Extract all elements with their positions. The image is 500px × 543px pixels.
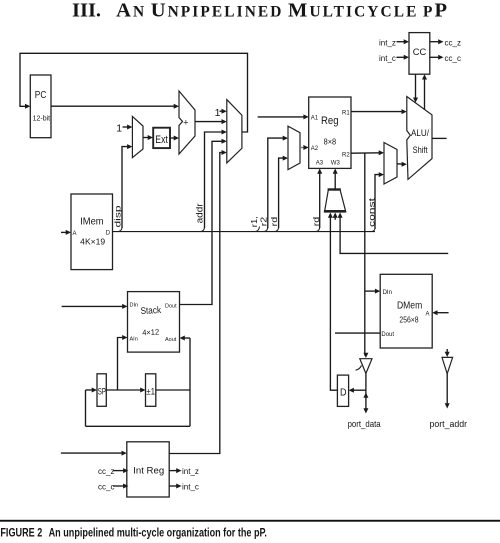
arrowhead into ALU from mux M4 <box>402 162 407 167</box>
wire result bus stub into mux M5 <box>340 216 448 253</box>
arrowhead into CC int_z <box>404 39 409 44</box>
svg-text:cc_c: cc_c <box>98 482 114 491</box>
wire Ext out to adder <box>170 137 176 139</box>
arrowhead into CC from ALU <box>422 74 427 79</box>
arrowhead into mux M4 input 1 <box>379 150 384 155</box>
arrowhead into mux M2 input 5 <box>222 150 227 155</box>
svg-text:Dout: Dout <box>165 303 177 309</box>
arrowhead into adder (PC) <box>174 104 179 109</box>
register file Reg <box>309 97 351 168</box>
arrowhead into mux M3 input 1 <box>283 136 288 141</box>
svg-text:1: 1 <box>215 107 221 119</box>
wire into Reg A1 <box>258 116 306 118</box>
wire mux M4 out to ALU <box>397 163 404 165</box>
wire r1 curve at bus <box>255 227 260 232</box>
svg-text:4×12: 4×12 <box>142 328 160 338</box>
wire constant 1 into mux M1 <box>123 126 130 128</box>
wire disp from bus up into mux M1 <box>122 147 130 228</box>
mux M1 (Ext input mux) <box>132 116 143 157</box>
svg-text:R2: R2 <box>342 153 350 159</box>
arrowhead into tri-state from R2 <box>363 353 368 358</box>
tri-state buffer (port_addr) <box>442 357 453 373</box>
svg-text:r2: r2 <box>259 216 269 226</box>
wire rd from bus up into mux M3 <box>279 158 285 228</box>
mux M5 (Reg W3 mux) <box>325 190 346 212</box>
svg-text:CC: CC <box>413 47 427 58</box>
svg-text:AIn: AIn <box>130 336 138 342</box>
svg-text:D: D <box>340 388 347 399</box>
svg-text:Reg: Reg <box>321 115 339 127</box>
wire into SP <box>86 389 95 391</box>
arrowhead into mux M2 input 1 <box>222 109 227 114</box>
mux M3 (Reg A2 mux) <box>288 126 300 170</box>
arrowhead port_addr down <box>445 403 450 408</box>
wire const from bus up into mux M4 <box>375 175 381 229</box>
svg-text:Shift: Shift <box>413 145 428 155</box>
svg-text:cc_z: cc_z <box>445 38 461 47</box>
arrowhead into mux M1 input 1 <box>127 125 132 130</box>
wire int_z into CC <box>397 41 407 43</box>
wire D register up into mux M5 <box>330 216 337 390</box>
arrowhead port_data up <box>363 393 368 398</box>
wire CC out cc_c <box>430 56 440 58</box>
svg-text:r1,: r1, <box>249 216 259 227</box>
wire Stack Dout up into mux M2 <box>180 141 222 304</box>
arrowhead into ALU from R1 <box>402 109 407 114</box>
arrowhead into D register <box>349 388 354 393</box>
wire CC out cc_z <box>430 41 440 43</box>
adder <box>179 91 195 154</box>
wire ALU out stub <box>432 137 447 139</box>
mux M5 thick top edge <box>328 188 341 190</box>
wire SP loop bottom <box>86 425 191 427</box>
memory DMem <box>380 274 432 348</box>
svg-text:Ext: Ext <box>155 134 168 146</box>
svg-text:int_z: int_z <box>379 38 396 47</box>
wire rd curve at bus <box>315 227 320 232</box>
arrowhead into port_addr buffer <box>445 352 450 357</box>
arrowhead into Stack DIn <box>122 304 127 309</box>
svg-text:Dout: Dout <box>381 332 394 338</box>
arrowhead into mux M5 input 3 <box>338 213 343 218</box>
mux M5 thick bottom edge <box>324 210 346 213</box>
arrowhead into mux M2 input 4 <box>222 139 227 144</box>
wire port_addr buffer down <box>446 374 448 406</box>
interrupt register Int Reg <box>127 442 169 497</box>
svg-text:addr: addr <box>195 203 206 223</box>
wire CC down into ALU <box>415 74 417 99</box>
arrowhead port_data down <box>363 408 368 413</box>
svg-text:const: const <box>367 197 377 227</box>
svg-text:port_data: port_data <box>348 419 382 430</box>
wire disp curve at bus <box>118 227 123 232</box>
wire stub into DMem A <box>435 312 448 314</box>
wire port_data bidirectional stem <box>365 390 367 410</box>
register PC <box>30 75 51 138</box>
mux M2 (PC source mux) <box>227 100 242 163</box>
arrowhead into mux M5 input 2 <box>333 213 338 218</box>
arrowhead into Int Reg top <box>122 451 127 456</box>
wire R2 tap to DMem DIn <box>365 290 377 292</box>
wire ±1 out to loop <box>156 389 190 391</box>
mux M4 (ALU const mux) <box>384 143 397 185</box>
register SP <box>97 374 106 407</box>
svg-text:int_z: int_z <box>182 467 199 476</box>
arrowhead into SP <box>92 388 97 393</box>
arrowhead cc_z out <box>438 39 443 44</box>
wire const curve at bus <box>371 228 376 232</box>
wire SP to ±1 <box>106 389 142 391</box>
wire R2 down to tri-state <box>364 153 366 355</box>
incrementer ±1 <box>146 374 156 407</box>
arrowhead into mux M2 input 3 <box>222 130 227 135</box>
svg-text:A: A <box>426 312 430 318</box>
wire adder out to mux M2 <box>195 121 222 123</box>
wire stub DMem bottom into port_addr buffer <box>446 349 448 354</box>
condition-code block CC <box>409 33 430 75</box>
wire cc_c into Int Reg <box>113 485 125 487</box>
wire stub into Int Reg top <box>61 452 124 454</box>
svg-text:DMem: DMem <box>397 301 422 312</box>
svg-text:IMem: IMem <box>80 217 103 228</box>
wire SP loop left up <box>85 390 87 426</box>
arrowhead into ±1 <box>140 388 145 393</box>
ALU/Shift unit <box>407 97 432 180</box>
svg-text:1: 1 <box>116 123 122 135</box>
svg-text:rd: rd <box>311 216 321 226</box>
arrowhead into ALU from CC <box>413 98 418 103</box>
wire SP tap up into Stack AIn <box>118 338 125 391</box>
wire cc_z into Int Reg <box>113 470 125 472</box>
arrowhead into Reg A2 <box>303 145 308 150</box>
svg-text:4K×19: 4K×19 <box>80 237 105 247</box>
svg-text:A3: A3 <box>316 161 324 167</box>
arrowhead into Stack AIn <box>122 335 127 340</box>
wire addr from bus up into mux M2 <box>205 132 222 228</box>
arrowhead int_c out <box>176 484 181 489</box>
svg-text:cc_z: cc_z <box>98 467 114 476</box>
svg-text:±1: ±1 <box>146 387 155 397</box>
svg-text:Aout: Aout <box>165 337 177 343</box>
wire mux M5 out to Reg W3 <box>334 173 336 190</box>
svg-text:III.ANUNPIPELINEDMULTICYCLEPP: III.ANUNPIPELINEDMULTICYCLEPP <box>72 0 449 22</box>
arrowhead into Reg A1 <box>303 114 308 119</box>
svg-text:rd: rd <box>269 216 279 226</box>
wire constant 1 into mux M2 <box>220 110 222 112</box>
arrowhead into Int Reg cc_c <box>123 484 128 489</box>
arrowhead into mux M4 input 2 <box>379 172 384 177</box>
svg-text:A: A <box>73 231 77 237</box>
arrowhead into DMem DIn <box>375 289 380 294</box>
svg-text:12-bit: 12-bit <box>33 114 51 123</box>
wire Int Reg vector up into mux M2 <box>169 153 221 454</box>
svg-text:port_addr: port_addr <box>430 419 468 430</box>
sign extender Ext <box>153 128 170 148</box>
wire ALU up into CC <box>424 77 426 109</box>
svg-text:DIn: DIn <box>130 302 139 308</box>
svg-text:int_c: int_c <box>182 482 199 491</box>
arrowhead into adder (Ext) <box>174 136 179 141</box>
wire int_c into CC <box>397 56 407 58</box>
svg-text:D: D <box>106 230 111 236</box>
arrowhead into CC int_c <box>404 55 409 60</box>
arrowhead into Stack Aout <box>180 336 185 341</box>
figure caption rule <box>0 520 500 522</box>
wire Int Reg out int_c <box>169 485 178 487</box>
memory IMem <box>71 194 113 270</box>
wire r2 from bus up into mux M3 <box>268 138 285 228</box>
svg-text:PC: PC <box>35 89 47 101</box>
wire Aout down <box>189 338 191 426</box>
wire r2 curve at bus <box>263 227 268 232</box>
wire DMem Dout left <box>335 332 380 334</box>
wire Reg R1 to ALU <box>351 111 404 113</box>
wire PC feedback loop (mux M2 out, up, left, down into PC) <box>20 53 248 132</box>
stack block Stack <box>128 292 180 353</box>
wire addr curve at bus <box>200 227 205 232</box>
svg-text:cc_c: cc_c <box>445 54 461 63</box>
wire stub into IMem A <box>61 231 68 233</box>
wire Reg R2 to mux M4 <box>351 152 381 154</box>
svg-text:W3: W3 <box>331 161 341 167</box>
svg-text:int_c: int_c <box>379 54 396 63</box>
arrowhead into mux M1 input 2 <box>127 144 132 149</box>
arrowhead into Int Reg cc_z <box>123 468 128 473</box>
tri-state buffer enable curve <box>356 366 362 371</box>
arrowhead into IMem A <box>66 230 71 235</box>
figure caption <box>0 528 267 540</box>
svg-text:disp: disp <box>114 205 123 228</box>
svg-text:SP: SP <box>98 387 106 397</box>
wire into Stack Aout <box>183 337 191 339</box>
register D (port data) <box>337 375 348 406</box>
arrowhead into mux M2 input 2 <box>222 119 227 124</box>
svg-text:DIn: DIn <box>383 290 392 296</box>
wire tri-state down to port_data junction <box>365 374 367 391</box>
arrowhead int_z out <box>176 468 181 473</box>
arrowhead into Ext <box>148 135 153 140</box>
svg-text:R1: R1 <box>342 110 350 116</box>
arrowhead into Reg A3 <box>317 168 322 173</box>
svg-text:256×8: 256×8 <box>399 315 418 325</box>
svg-text:Stack: Stack <box>140 305 161 317</box>
wire mux M3 out to Reg A2 <box>300 147 306 149</box>
wire rd from bus up into Reg A3 <box>319 173 321 229</box>
wire rd curve at bus <box>274 227 279 232</box>
wire short stub into mux M5 middle input <box>334 216 336 220</box>
svg-text:8×8: 8×8 <box>324 137 337 147</box>
svg-text:+: + <box>183 118 188 128</box>
svg-text:A1: A1 <box>311 116 319 122</box>
svg-text:ALU/: ALU/ <box>411 128 429 138</box>
wire Int Reg out int_z <box>169 470 178 472</box>
svg-text:FIGURE 2An unpipelined multi-c: FIGURE 2An unpipelined multi-cycle organ… <box>0 528 267 540</box>
wire mux M1 out to Ext <box>143 137 150 139</box>
wire into Stack DIn <box>62 305 125 307</box>
arrowhead into mux M3 input 2 <box>283 156 288 161</box>
svg-text:Int Reg: Int Reg <box>133 466 164 477</box>
tri-state buffer (port_data) <box>360 359 372 374</box>
arrowhead into DMem A <box>432 310 437 315</box>
arrowhead into Reg W3 <box>333 168 338 173</box>
svg-text:A2: A2 <box>311 146 319 152</box>
arrowhead into PC <box>25 104 30 109</box>
wire PC out to adder <box>51 105 176 107</box>
wire instruction bus from IMem D <box>113 231 376 233</box>
wire into D register from right <box>352 389 366 391</box>
arrowhead into mux M5 input 1 <box>328 213 333 218</box>
arrowhead cc_c out <box>438 55 443 60</box>
